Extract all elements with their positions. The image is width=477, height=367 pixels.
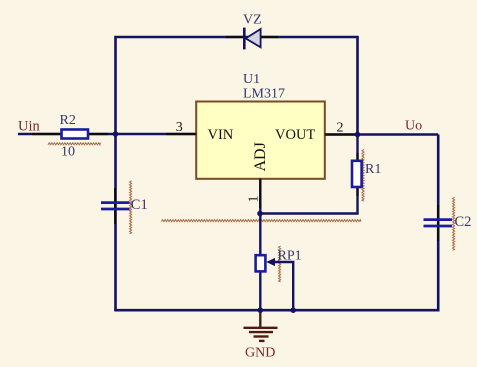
op-amp regulator U1 LM317 body	[196, 102, 325, 179]
wire: top bus from node A to VZ branch corner	[116, 37, 358, 310]
wire: RP1 wiper to ground bus	[272, 262, 293, 310]
junction wiper on ground bus	[290, 307, 296, 313]
wire: VOUT to output branch	[325, 133, 438, 135]
svg-text:Uin: Uin	[18, 118, 41, 134]
svg-text:3: 3	[176, 120, 183, 135]
U1 pin 1 ADJ lead	[259, 179, 261, 208]
svg-text:Uo: Uo	[405, 119, 422, 134]
no-ERC hatch under ADJ net wire	[161, 220, 361, 222]
wire: R1 bottom to ADJ node	[260, 135, 358, 214]
resistor R2	[32, 130, 108, 139]
svg-text:R2: R2	[60, 113, 76, 128]
U1 pin 2 VOUT lead	[325, 133, 355, 135]
junction node output at VZ branch	[355, 132, 361, 138]
wire: ADJ pin to RP1	[259, 179, 261, 256]
svg-text:2: 2	[337, 120, 344, 135]
wire: output vertical through C2	[437, 135, 440, 311]
svg-text:1: 1	[246, 196, 261, 203]
svg-text:10: 10	[61, 145, 75, 160]
potentiometer RP1	[256, 255, 275, 271]
no-ERC hatch beside R1	[362, 150, 364, 202]
junction node A (input)	[113, 131, 119, 137]
zener diode VZ	[226, 28, 278, 50]
svg-text:LM317: LM317	[243, 87, 285, 102]
svg-text:VZ: VZ	[243, 12, 262, 27]
junction ADJ node	[257, 211, 263, 217]
U1 pin 3 VIN lead	[166, 133, 196, 135]
no-ERC hatch beside C2	[453, 197, 455, 250]
junction RP1 bottom on ground bus	[258, 307, 264, 313]
capacitor C2	[424, 205, 453, 241]
wire: input net Uin to R2 and R2 to node A	[18, 133, 196, 135]
no-ERC hatch beside C1	[130, 181, 132, 234]
wire: RP1 bottom to ground bus	[259, 272, 261, 311]
resistor R1	[352, 153, 362, 196]
svg-text:ADJ: ADJ	[252, 142, 269, 171]
svg-text:R1: R1	[365, 162, 381, 177]
svg-text:VOUT: VOUT	[275, 127, 315, 143]
capacitor C1	[101, 188, 130, 224]
no-ERC hatch under R2 value	[48, 143, 101, 145]
svg-text:GND: GND	[245, 346, 275, 361]
svg-text:RP1: RP1	[278, 249, 302, 264]
svg-text:VIN: VIN	[208, 127, 234, 143]
no-ERC hatch beside RP1	[279, 246, 281, 282]
svg-text:U1: U1	[243, 72, 260, 87]
wire: bottom ground bus	[114, 309, 439, 312]
svg-text:C1: C1	[131, 197, 148, 213]
svg-text:C2: C2	[455, 214, 472, 230]
ground symbol	[244, 310, 278, 341]
